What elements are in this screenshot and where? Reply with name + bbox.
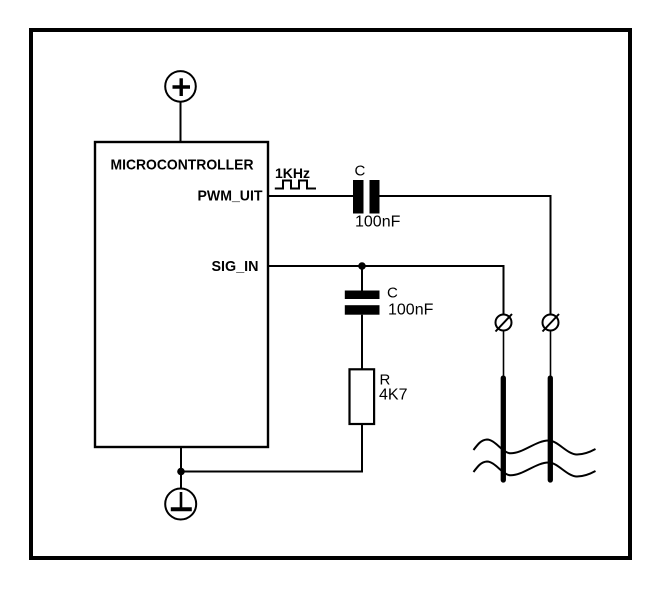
wire C2 to R1 xyxy=(361,315,363,370)
wire C1 to right electrode xyxy=(380,196,551,315)
right electrode xyxy=(548,378,553,480)
square wave symbol xyxy=(275,181,316,189)
connector left (circle with slash) xyxy=(496,314,513,332)
wire PWM_UIT to C1 xyxy=(268,195,353,197)
resistor R1 xyxy=(350,369,375,424)
capacitor C1 xyxy=(353,180,380,214)
wire SIG_IN to left connector xyxy=(268,266,504,315)
left electrode xyxy=(501,378,506,480)
ground symbol xyxy=(165,489,196,520)
microcontroller U1 xyxy=(95,142,268,447)
wire junction to C2 xyxy=(361,266,363,291)
svg-text:SIG_IN: SIG_IN xyxy=(212,258,259,275)
svg-text:1KHz: 1KHz xyxy=(275,165,310,181)
svg-text:MICROCONTROLLER: MICROCONTROLLER xyxy=(111,157,254,174)
connector right (circle with slash) xyxy=(543,314,560,332)
junction node at ground rail xyxy=(177,468,185,476)
junction node on SIG_IN wire xyxy=(358,262,366,270)
power supply symbol V+ xyxy=(165,71,196,102)
svg-text:4K7: 4K7 xyxy=(379,387,408,404)
svg-text:C: C xyxy=(355,163,366,180)
capacitor C2 xyxy=(345,291,380,315)
svg-text:100nF: 100nF xyxy=(355,214,401,231)
wire junction to ground xyxy=(180,472,182,489)
wire connector to right electrode xyxy=(550,331,552,379)
svg-text:C: C xyxy=(387,285,398,302)
wire power to microcontroller xyxy=(180,102,182,141)
svg-text:PWM_UIT: PWM_UIT xyxy=(198,188,263,205)
wire connector to left electrode xyxy=(503,331,505,379)
water wave lower xyxy=(474,462,596,477)
water wave upper xyxy=(474,440,596,455)
wire R1 to ground rail xyxy=(181,424,362,472)
svg-text:100nF: 100nF xyxy=(388,302,434,319)
wire microcontroller bottom pin xyxy=(180,447,182,472)
